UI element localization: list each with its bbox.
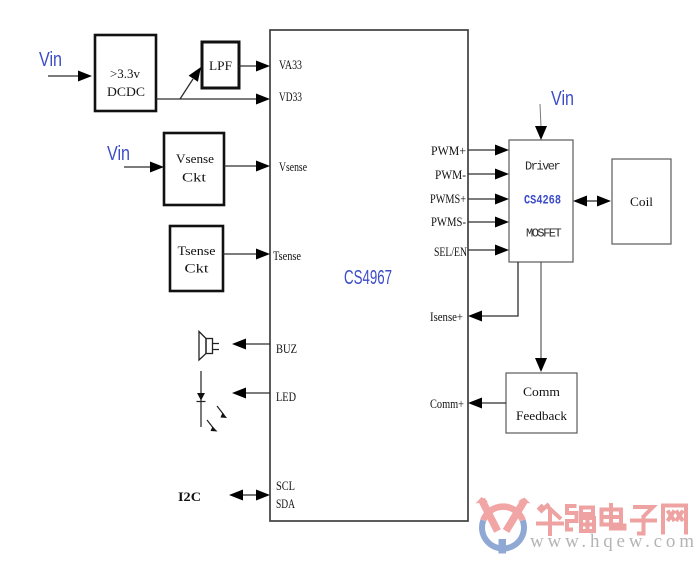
svg-text:Vsense: Vsense <box>176 151 214 166</box>
svg-text:DCDC: DCDC <box>107 84 145 99</box>
svg-text:Comm: Comm <box>523 384 560 399</box>
svg-text:VD33: VD33 <box>279 89 302 104</box>
svg-text:Driver: Driver <box>525 160 561 174</box>
svg-text:PWMS+: PWMS+ <box>430 191 466 206</box>
svg-text:Coil: Coil <box>630 194 653 209</box>
svg-text:Comm+: Comm+ <box>430 396 464 411</box>
svg-text:>3.3v: >3.3v <box>110 66 140 81</box>
svg-text:Vin: Vin <box>107 143 130 165</box>
svg-text:MOSFET: MOSFET <box>526 227 562 241</box>
svg-text:CS4967: CS4967 <box>344 267 392 289</box>
svg-text:LED: LED <box>276 389 296 404</box>
svg-text:PWM-: PWM- <box>435 167 466 182</box>
svg-text:PWM+: PWM+ <box>431 143 466 158</box>
svg-text:Vin: Vin <box>551 88 574 110</box>
svg-text:BUZ: BUZ <box>276 341 297 356</box>
svg-text:CS4268: CS4268 <box>524 194 561 208</box>
svg-text:VA33: VA33 <box>279 57 302 72</box>
svg-text:Tsense: Tsense <box>178 243 216 258</box>
svg-text:Vsense: Vsense <box>279 159 307 174</box>
svg-text:SCL: SCL <box>276 478 295 493</box>
svg-text:www.hqew.com: www.hqew.com <box>530 531 694 552</box>
svg-text:SDA: SDA <box>276 496 295 511</box>
svg-text:Feedback: Feedback <box>516 408 568 423</box>
svg-text:SEL/EN: SEL/EN <box>434 244 467 259</box>
svg-text:Vin: Vin <box>39 49 62 71</box>
svg-text:PWMS-: PWMS- <box>431 214 466 229</box>
svg-text:Ckt: Ckt <box>185 261 209 276</box>
svg-text:LPF: LPF <box>209 58 232 73</box>
svg-text:Ckt: Ckt <box>182 170 206 185</box>
svg-text:Tsense: Tsense <box>273 248 301 263</box>
svg-text:Isense+: Isense+ <box>430 309 463 324</box>
svg-text:I2C: I2C <box>178 489 201 504</box>
